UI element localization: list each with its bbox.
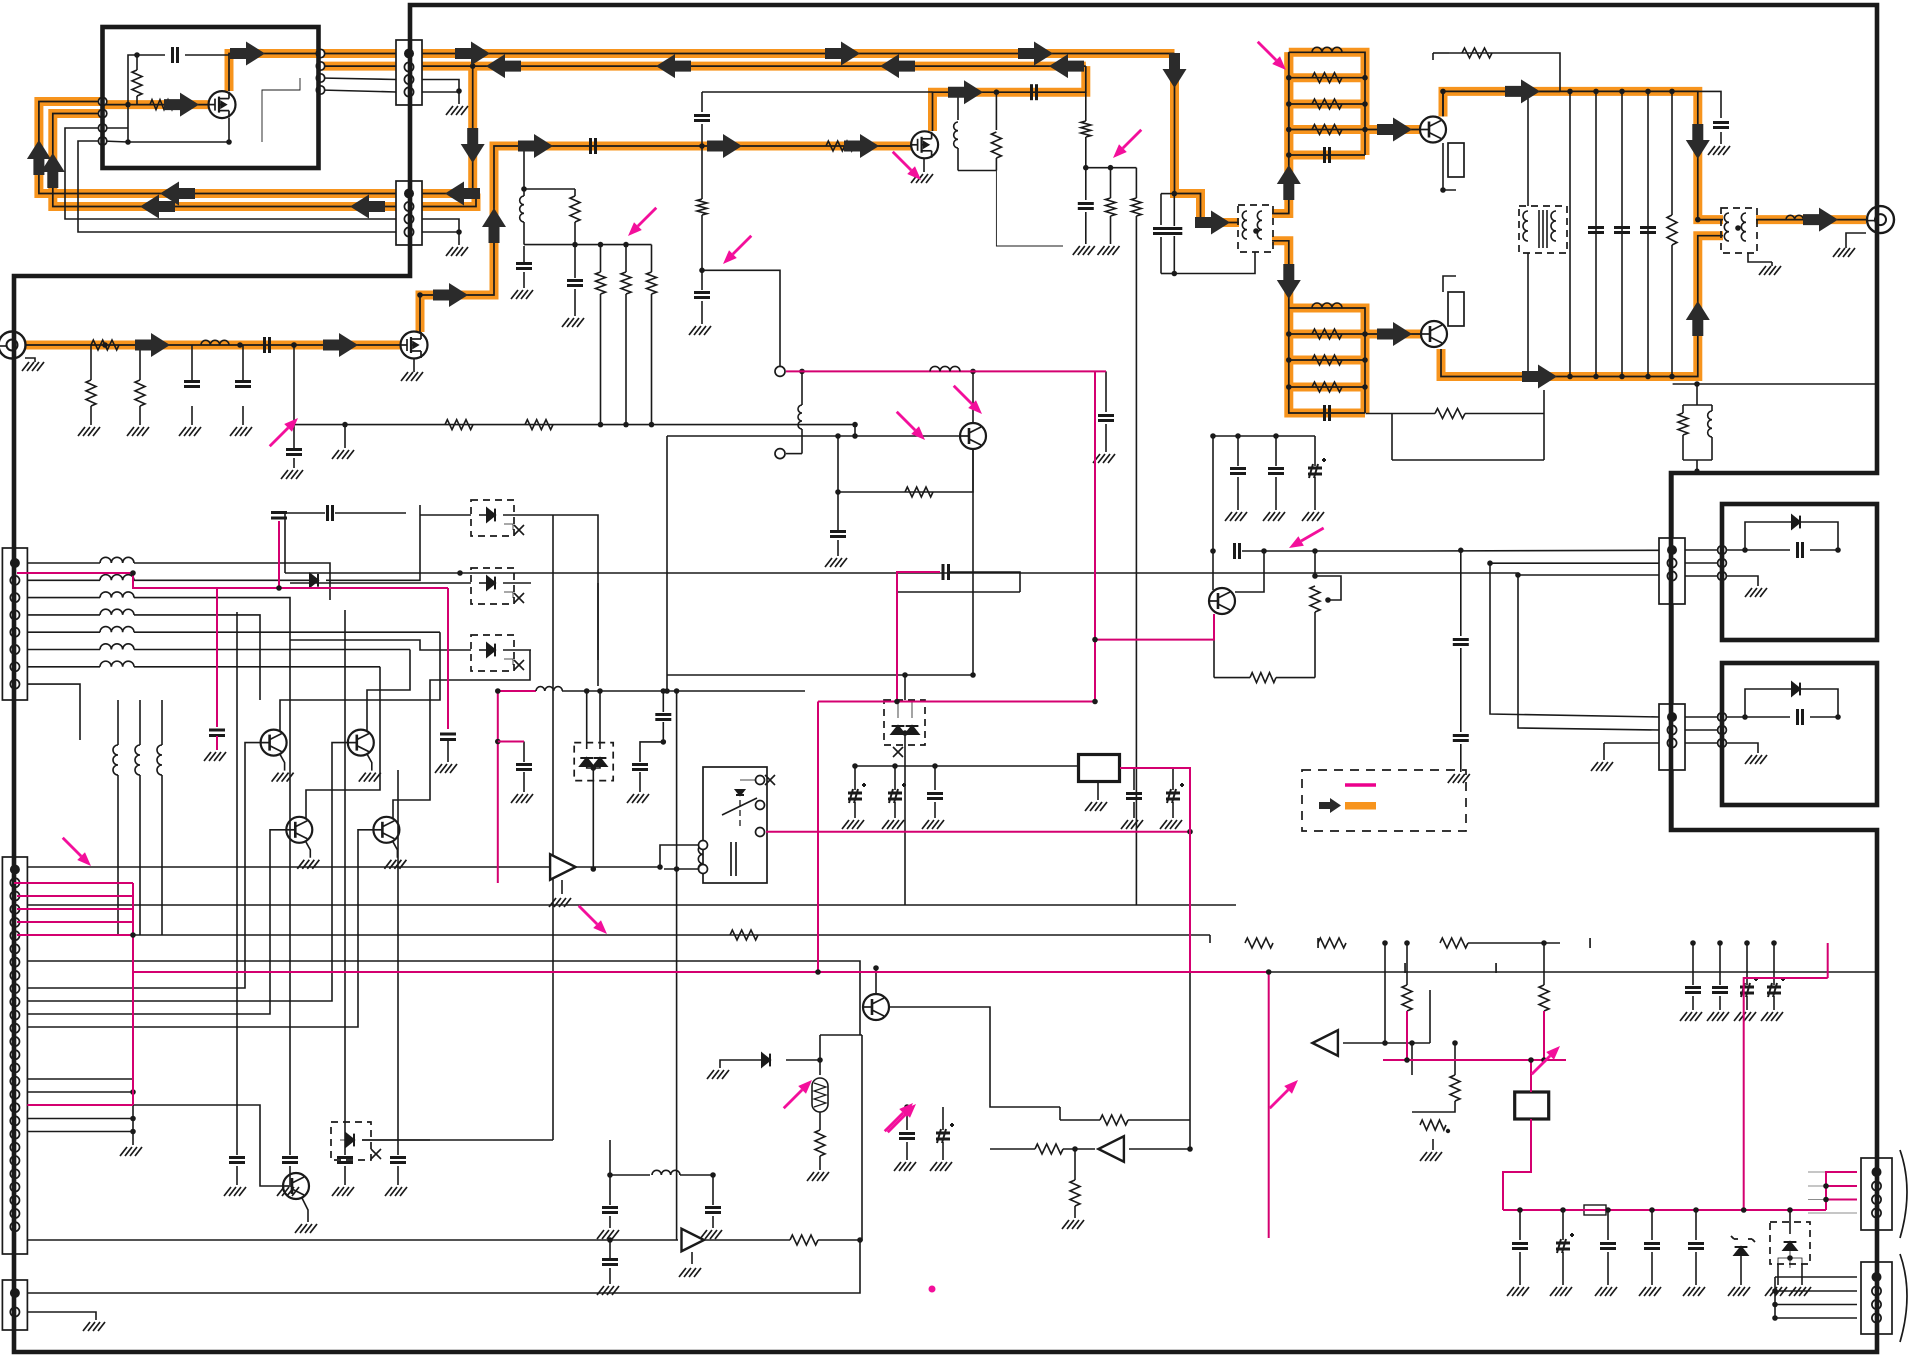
wire (344, 1166, 346, 1185)
signal-flow arrow (1195, 211, 1230, 235)
wire (854, 802, 856, 818)
signal-flow arrow (27, 140, 51, 175)
capacitor (1588, 228, 1604, 233)
pointer (1270, 1090, 1288, 1108)
junction (125, 102, 131, 108)
wire (signal line) (896, 592, 898, 702)
wire (signal line) (1094, 371, 1096, 701)
wire (27, 1312, 96, 1320)
signal-flow arrow (1522, 365, 1557, 389)
wire (1801, 1264, 1803, 1285)
inductor (line filter) (100, 627, 134, 633)
ground (332, 1187, 354, 1196)
junction (130, 1089, 136, 1095)
junction (1286, 357, 1292, 363)
resistor (826, 141, 854, 151)
wire (highlighted RF path) (39, 102, 473, 194)
diode switch (dashed) (471, 500, 514, 536)
connector (accessory 2) (1861, 1262, 1892, 1334)
inductor (954, 122, 958, 148)
board edge pad (98, 109, 106, 117)
wire (27, 562, 100, 564)
inductor (line filter) (100, 557, 134, 563)
wire (680, 1174, 713, 1176)
capacitor (632, 765, 648, 770)
wire (701, 124, 703, 146)
wire (1698, 91, 1721, 118)
junction (1823, 1197, 1829, 1203)
pin (699, 841, 708, 850)
junction (130, 932, 136, 938)
diode (310, 574, 318, 587)
wire (1460, 648, 1462, 732)
wire (1775, 1276, 1857, 1278)
ground (385, 1187, 407, 1196)
ground (597, 1286, 619, 1295)
wire (1746, 996, 1748, 1010)
wire (367, 650, 410, 732)
junction (1362, 127, 1368, 133)
ground (446, 106, 468, 115)
wire (1135, 168, 1137, 198)
resistor (1450, 1075, 1460, 1101)
wire (1161, 273, 1174, 275)
wire (289, 1166, 291, 1185)
electrolytic capacitor (888, 783, 906, 803)
wire (392, 841, 397, 858)
wire (1212, 436, 1214, 551)
wire (242, 406, 244, 425)
wire (signal line) (1530, 1060, 1532, 1092)
no-connection mark (514, 525, 524, 535)
transistor (APC) (1209, 588, 1235, 614)
no-connection mark (514, 660, 524, 670)
capacitor (209, 730, 225, 736)
diode (594, 758, 607, 766)
wire (highlighted RF path) (1175, 54, 1240, 223)
resistor (730, 930, 758, 940)
resistor (1495, 963, 1497, 973)
wire (1518, 574, 1659, 576)
wire (293, 425, 295, 448)
connector (antenna unit 2) (1659, 704, 1685, 770)
wire (574, 222, 576, 245)
inductor (135, 745, 140, 775)
wire (1468, 942, 1560, 944)
wire (1519, 1252, 1521, 1285)
junction (473, 191, 479, 197)
junction (1487, 560, 1493, 566)
wire (signal line) (1406, 1011, 1408, 1060)
arrow (736, 790, 744, 795)
junction (852, 422, 858, 428)
wire (289, 640, 291, 1053)
inductor (ladder) (1312, 47, 1342, 52)
wire (786, 453, 802, 455)
wire (1671, 91, 1673, 215)
wire (1314, 477, 1316, 510)
inductor (line filter) (100, 575, 134, 581)
wire (highlighted RF path) (1365, 125, 1420, 134)
MOSFET (RF amp 1) (401, 332, 428, 359)
wire (1562, 1252, 1564, 1285)
ground (127, 427, 149, 436)
junction (623, 422, 629, 428)
transistor (PA upper) (1420, 117, 1446, 143)
junction (873, 965, 879, 971)
ground (1591, 762, 1613, 771)
wire (990, 1148, 1035, 1150)
junction (1286, 384, 1292, 390)
wire (819, 1156, 821, 1170)
wire (949, 572, 1020, 592)
wire (306, 667, 380, 818)
junction (970, 369, 976, 375)
capacitor (694, 293, 710, 298)
wire (1790, 1258, 1802, 1264)
signal-flow arrow (455, 42, 490, 66)
diode (487, 509, 495, 522)
ground (295, 1224, 317, 1233)
capacitor (1644, 1244, 1660, 1249)
wire (1412, 1101, 1455, 1112)
wire (1603, 743, 1605, 760)
wire (signal line) (1120, 768, 1190, 972)
junction (1694, 381, 1700, 387)
junction (674, 866, 680, 872)
wire (786, 1059, 820, 1061)
signal-flow arrow (1686, 301, 1710, 336)
wire (139, 700, 141, 745)
wire (479, 649, 487, 651)
signal-flow arrow (656, 54, 691, 78)
wire (1562, 1210, 1564, 1240)
wire (signal line) (1827, 943, 1829, 978)
electrolytic capacitor (1308, 458, 1326, 478)
signal-flow arrow (160, 182, 195, 206)
junction (1409, 1040, 1415, 1046)
wire (1235, 551, 1264, 592)
wire (651, 294, 653, 425)
pin (1718, 713, 1727, 722)
wire (837, 540, 839, 556)
wire (highlighted RF path) (1289, 383, 1365, 392)
wire (242, 345, 244, 380)
wire (284, 513, 286, 573)
wire (712, 1216, 714, 1228)
wire (highlighted RF path) (1365, 330, 1421, 339)
wire (1527, 253, 1529, 377)
wire (1172, 802, 1174, 818)
resistor (445, 420, 473, 430)
wire (1519, 1210, 1521, 1240)
wire (597, 583, 599, 660)
pointer (885, 1113, 903, 1131)
wire (609, 1140, 611, 1205)
wire (942, 1142, 944, 1160)
wire (27, 1091, 133, 1093)
wire (1085, 168, 1087, 200)
diode (1792, 516, 1800, 529)
ground (297, 860, 319, 869)
ground (1683, 1287, 1705, 1296)
pointer (888, 1114, 906, 1132)
wire (422, 219, 459, 245)
inductor (201, 340, 229, 345)
board edge pad (316, 49, 324, 57)
signal-flow arrow (1163, 53, 1187, 88)
wire (236, 1040, 238, 1155)
wire (280, 632, 440, 731)
wire (894, 802, 896, 818)
wire (1213, 435, 1315, 437)
junction (1787, 1207, 1793, 1213)
wire (1651, 1210, 1653, 1240)
ground (597, 1230, 619, 1239)
diode switch (dashed) (471, 568, 514, 604)
junction (127, 54, 129, 56)
wire (1777, 1264, 1779, 1285)
wire (662, 691, 664, 712)
inductor (113, 745, 118, 775)
wire (362, 1139, 430, 1141)
wire (highlighted RF path) (103, 100, 209, 109)
junction (1567, 89, 1573, 95)
wire (666, 436, 668, 691)
wire (highlighted RF path) (53, 114, 476, 207)
junction (894, 699, 900, 705)
wire (236, 612, 238, 1040)
wire (1214, 677, 1250, 679)
ground (1098, 246, 1120, 255)
signal-flow arrow (433, 283, 468, 307)
wire (934, 802, 936, 818)
inductor (157, 745, 162, 775)
wire (1745, 716, 1790, 718)
junction (521, 186, 527, 192)
junction (591, 765, 597, 771)
ground (1833, 248, 1855, 257)
ground (1062, 1220, 1084, 1229)
signal-flow arrow (350, 195, 385, 219)
junction (291, 342, 297, 348)
wire (27, 1131, 133, 1133)
junction (137, 342, 143, 348)
junction (1669, 374, 1675, 380)
junction (130, 1116, 136, 1122)
ground (359, 773, 381, 782)
junction (276, 585, 282, 591)
ground (1121, 820, 1143, 829)
wire (1773, 996, 1775, 1010)
wire (signal line) (1383, 1059, 1566, 1061)
wire (1683, 459, 1712, 461)
ground (1789, 1287, 1811, 1296)
capacitor (1798, 542, 1803, 558)
junction (1404, 1057, 1410, 1063)
wire (1775, 1290, 1857, 1292)
wire (701, 146, 703, 199)
junction (852, 763, 858, 769)
resistor (chip) (1448, 292, 1464, 326)
inductor (antenna) (1786, 215, 1812, 219)
resistor (1106, 198, 1116, 216)
pointer (1301, 528, 1324, 541)
wire (1384, 943, 1386, 1043)
wire (1129, 968, 1190, 1149)
wire (1074, 1206, 1076, 1218)
wire (934, 766, 936, 790)
wire (660, 845, 698, 867)
ground (272, 773, 294, 782)
wire (1651, 1252, 1653, 1285)
wire (1160, 194, 1162, 225)
wire (280, 754, 285, 771)
inductor (1551, 211, 1556, 241)
junction (1325, 597, 1331, 603)
resistor (1081, 121, 1091, 137)
capacitor (1153, 229, 1169, 234)
resistor (1312, 125, 1342, 135)
wire (103, 141, 128, 142)
wire (1097, 781, 1099, 800)
wire (503, 649, 531, 651)
pin (756, 801, 765, 810)
inductor (520, 196, 524, 222)
wire (609, 1216, 611, 1228)
ground (825, 558, 847, 567)
ground (401, 372, 423, 381)
board edge pad (316, 62, 324, 70)
wire (659, 867, 661, 869)
wire (signal line) (766, 831, 1190, 833)
ceramic resonator (812, 1078, 828, 1112)
signal-flow arrow (486, 54, 521, 78)
wire (1771, 262, 1773, 266)
capacitor (1688, 1244, 1704, 1249)
inductor (line filter) (100, 644, 134, 650)
capacitor (1453, 736, 1469, 741)
wire (signal line) (897, 572, 940, 592)
ground (679, 1268, 701, 1277)
wire (552, 515, 554, 1140)
diode (346, 1134, 354, 1147)
wire (1406, 943, 1408, 985)
wire (586, 691, 588, 749)
pointer (733, 236, 751, 254)
wire (524, 244, 652, 246)
wire (712, 1175, 714, 1205)
wire (576, 866, 660, 868)
resistor (1678, 413, 1688, 435)
wire (1411, 1043, 1413, 1075)
wire (340, 1139, 346, 1141)
wire (1366, 413, 1436, 415)
wire (523, 272, 525, 288)
wire (1276, 677, 1315, 679)
board edge pad (98, 97, 106, 105)
wire (1074, 1149, 1076, 1180)
wire (664, 868, 698, 870)
wire (signal line) (1826, 1172, 1857, 1200)
wire (highlighted RF path) (1289, 52, 1365, 155)
wire (820, 1034, 862, 1036)
junction (892, 763, 898, 769)
junction (1440, 187, 1446, 193)
wire (90, 345, 92, 380)
junction (1187, 1146, 1193, 1152)
junction (1072, 1146, 1078, 1152)
capacitor (1325, 405, 1330, 421)
wire (1621, 91, 1623, 376)
ground (911, 174, 933, 183)
diode (762, 1054, 770, 1067)
capacitor (602, 1260, 618, 1265)
junction (674, 688, 680, 694)
junction (1108, 165, 1114, 171)
pin (1718, 559, 1727, 568)
junction (521, 143, 527, 149)
transistor (AF) (863, 994, 889, 1020)
inductor (652, 1170, 680, 1175)
wire (1433, 52, 1449, 54)
junction (1172, 191, 1178, 197)
signal-flow arrow (1018, 42, 1053, 66)
wire (1209, 935, 1211, 943)
wire (523, 742, 525, 763)
transformer (interstage) (1519, 206, 1567, 253)
ground (1263, 512, 1285, 521)
wire (1454, 1043, 1456, 1075)
capacitor (899, 1134, 915, 1139)
connector (power) (2, 1280, 27, 1330)
junction (1210, 548, 1216, 554)
junction (970, 672, 976, 678)
wire (139, 345, 141, 380)
junction (1092, 637, 1098, 643)
wire (957, 92, 959, 120)
junction (902, 730, 908, 736)
inductor (1708, 411, 1712, 437)
junction (835, 433, 841, 439)
wire (1607, 1210, 1609, 1240)
ground (562, 318, 584, 327)
junction (1440, 89, 1446, 95)
wire (139, 775, 141, 935)
wire (1726, 549, 1745, 551)
signal-flow arrow (461, 128, 485, 163)
wire (897, 591, 1020, 593)
signal-flow arrow (1803, 208, 1838, 232)
wire (signal line) (27, 1104, 60, 1106)
wire (1789, 1250, 1791, 1268)
wire (1527, 91, 1529, 206)
junction (1362, 101, 1368, 107)
wire (397, 1166, 399, 1185)
wire (1314, 551, 1316, 576)
wire (signal line) (216, 736, 218, 750)
junction (661, 688, 667, 694)
junction (1619, 374, 1625, 380)
ground (22, 362, 44, 371)
junction (130, 1129, 136, 1135)
capacitor (830, 532, 846, 537)
resistor (86, 380, 96, 406)
wire (599, 691, 601, 749)
signal-flow arrow (948, 80, 983, 104)
pointer (579, 906, 597, 924)
junction (598, 242, 604, 248)
